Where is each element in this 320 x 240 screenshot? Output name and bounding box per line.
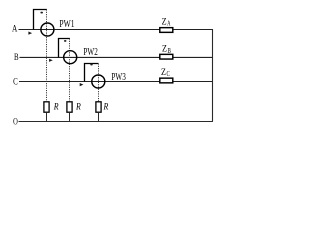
current arrow phase B	[49, 59, 53, 62]
wattmeter PW2 body	[64, 51, 77, 64]
current arrow phase A	[28, 32, 32, 35]
svg-text:B: B	[14, 53, 19, 63]
svg-text:PW1: PW1	[59, 19, 74, 30]
svg-text:R: R	[53, 103, 59, 113]
svg-text:B: B	[168, 47, 172, 55]
resistor R1	[44, 102, 49, 112]
resistor R3	[96, 102, 101, 112]
svg-text:A: A	[167, 20, 170, 28]
resistor R2	[67, 102, 72, 112]
impedance ZC	[160, 78, 173, 83]
wattmeter PW3 body	[92, 75, 105, 88]
svg-text:R: R	[75, 103, 81, 113]
wire PW3 voltage lead (dashed)	[98, 64, 100, 102]
wire phase C	[19, 81, 213, 83]
wire neutral O	[19, 121, 213, 123]
current arrow phase C	[80, 83, 84, 86]
wire PW2 voltage lead (dashed)	[69, 39, 71, 102]
svg-text:C: C	[167, 70, 171, 78]
svg-text:O: O	[13, 118, 18, 128]
label ZB	[162, 44, 171, 55]
label ZA	[162, 16, 171, 27]
wire R3 to neutral	[98, 113, 100, 122]
svg-text:R: R	[103, 103, 109, 113]
svg-text:C: C	[13, 78, 18, 88]
wire phase A	[19, 29, 213, 31]
wattmeter PW1 polarity mark	[40, 12, 43, 14]
svg-text:A: A	[12, 24, 17, 34]
wire PW1 voltage lead (dashed)	[46, 10, 48, 102]
wire R1 to neutral	[46, 113, 48, 122]
impedance ZA	[160, 28, 173, 33]
wire phase B	[20, 56, 213, 58]
wire right vertical (load star point to neutral)	[212, 29, 214, 122]
wattmeter PW3 polarity mark	[90, 64, 93, 66]
wattmeter PW1 voltage coil	[34, 10, 47, 30]
label ZC	[161, 67, 170, 78]
wattmeter PW1 body	[41, 23, 54, 36]
svg-text:PW2: PW2	[83, 47, 97, 58]
impedance ZB	[160, 54, 173, 59]
wattmeter PW3 voltage coil	[85, 64, 99, 82]
svg-text:PW3: PW3	[111, 72, 125, 83]
wattmeter PW2 voltage coil	[59, 39, 71, 58]
wire R2 to neutral	[69, 113, 71, 122]
wattmeter PW2 polarity mark	[64, 40, 67, 42]
